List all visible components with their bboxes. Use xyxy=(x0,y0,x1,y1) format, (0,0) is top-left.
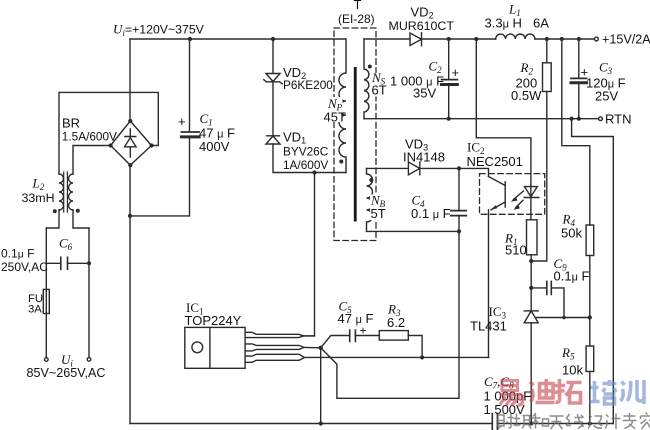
node: VD3/C4 node A xyxy=(457,166,461,170)
wire: TL431 ref line xyxy=(536,317,590,319)
node: bridge-minus / C1-return junction xyxy=(128,214,132,218)
wire: drain pin to drain vertical xyxy=(304,335,315,337)
capacitor C9 plates xyxy=(547,281,552,294)
she xyxy=(498,414,514,430)
node: source at bottom rail xyxy=(319,421,323,425)
pin xyxy=(514,414,532,429)
wire: secondary top rail to +15V xyxy=(364,38,594,40)
svg-text:1.5A/600V: 1.5A/600V xyxy=(62,130,117,144)
svg-text:+: + xyxy=(360,324,367,338)
node: bridge left vertex xyxy=(109,143,113,147)
choke L2 right winding xyxy=(69,174,73,210)
node: ref divider junction xyxy=(588,315,592,319)
label: NS 6T xyxy=(371,70,387,98)
opto phototransistor xyxy=(489,177,506,210)
svg-text:RTN: RTN xyxy=(605,112,631,127)
capacitor C1 lead bottom xyxy=(189,138,191,216)
wire: bridge minus down to primary ground rail xyxy=(129,165,131,423)
wire: R5 to RTN bottom rail xyxy=(589,372,591,424)
terminal: RTN xyxy=(599,117,603,121)
ji xyxy=(605,414,621,430)
node: NS phase dot xyxy=(368,65,372,69)
node: rail-clamp junction xyxy=(271,37,275,41)
label: C4 0.1uF xyxy=(411,193,451,222)
svg-text:+: + xyxy=(452,65,460,80)
resistor R1 box xyxy=(527,220,538,255)
node: L2 right phase dot xyxy=(76,209,80,213)
node: rail-R2 junction xyxy=(545,37,549,41)
char Yi xyxy=(500,381,523,406)
IC1 source pin xyxy=(245,344,304,351)
label: VD2 MUR610CT xyxy=(389,5,455,34)
diode inside bridge xyxy=(125,129,137,157)
label: BR 1.5A/600V xyxy=(62,116,117,144)
capacitor C5 plates xyxy=(350,330,356,341)
svg-text:33mH: 33mH xyxy=(22,191,55,205)
svg-text:+: + xyxy=(178,114,186,129)
wire: drain vertical to TOP224 pin xyxy=(304,173,315,336)
svg-text:510: 510 xyxy=(505,243,527,258)
node: RTN step junction xyxy=(570,117,574,121)
label: RTN xyxy=(605,112,631,127)
label: C7 C8 1000pF 1500V xyxy=(484,374,532,417)
opto LED xyxy=(524,185,539,220)
svg-text:3A: 3A xyxy=(28,304,42,316)
svg-text:85V~265V,AC: 85V~265V,AC xyxy=(27,366,106,380)
transformer core xyxy=(354,67,357,222)
label: IC1 TOP224Y xyxy=(185,300,242,328)
wire: left AC step up to choke xyxy=(46,210,59,228)
svg-text:25V: 25V xyxy=(595,89,618,104)
svg-text:+: + xyxy=(581,65,589,80)
label: + C1 xyxy=(178,114,186,129)
svg-text:1A/600V: 1A/600V xyxy=(283,158,328,172)
svg-text:BYV26C: BYV26C xyxy=(283,145,329,159)
wire: clamp bottom to drain node and NP bottom xyxy=(273,144,346,173)
opto light arrows xyxy=(511,191,524,210)
node: rail-C3 junction xyxy=(577,37,581,41)
IC1 TOP224Y package body xyxy=(185,327,245,368)
node: C9 to ref junction xyxy=(562,316,566,320)
label: C9 0.1uF xyxy=(554,256,590,284)
wire: C1 bottom return xyxy=(129,215,190,217)
node: NB return / C4 junction xyxy=(457,229,461,233)
label: L1 3.3uH 6A xyxy=(485,2,550,31)
svg-text:T: T xyxy=(354,0,362,12)
TVS VD2 P6KE200 xyxy=(264,74,282,84)
wire: LED feed from +15V rail xyxy=(476,39,531,187)
svg-text:IN4148: IN4148 xyxy=(403,150,445,165)
capacitor C2 plates xyxy=(442,80,458,85)
tian xyxy=(550,416,564,429)
svg-text:TOP224Y: TOP224Y xyxy=(185,313,242,328)
zhuan xyxy=(623,413,637,429)
wire: NB bottom return xyxy=(367,230,460,232)
char Tuo xyxy=(555,379,582,403)
svg-text:0.1μ F: 0.1μ F xyxy=(1,247,34,261)
label: VD1 BYV26C 1A/600V xyxy=(283,130,329,173)
he xyxy=(532,413,549,429)
node: rail-R4feed junction xyxy=(560,37,564,41)
svg-text:35V: 35V xyxy=(413,86,436,101)
wire: TL431 anode to RTN bottom rail xyxy=(530,323,532,424)
svg-text:(EI-28): (EI-28) xyxy=(338,12,375,26)
inductor L1 xyxy=(496,34,535,39)
capacitor C6 leads xyxy=(46,262,89,264)
wire: C5 to R3 xyxy=(355,335,379,337)
label: Ui 85V~265V,AC xyxy=(27,352,106,380)
svg-text:MUR610CT: MUR610CT xyxy=(389,19,455,33)
wire: primary bottom ground rail xyxy=(130,423,492,425)
input AC right line xyxy=(88,228,90,357)
capacitor C4 plates xyxy=(451,211,467,216)
label: C1 47uF 400V xyxy=(199,111,235,154)
label: IC2 NEC2501 xyxy=(467,140,523,170)
node: R3 drop on control line xyxy=(420,355,424,359)
label: L2 33mH xyxy=(22,176,55,206)
label: C2 1000uF 35V xyxy=(390,59,444,101)
wire: left choke top over bridge to right vertex xyxy=(59,92,158,174)
primary winding NP xyxy=(339,39,346,173)
label: + C3 xyxy=(581,65,589,80)
wire: between VD2 and VD1 xyxy=(272,82,274,137)
capacitor C1 lead top xyxy=(189,39,191,132)
wire: control line xyxy=(305,356,488,358)
node: R2-join junction xyxy=(529,259,533,263)
svg-text:6T: 6T xyxy=(372,83,387,98)
wire: clamp branch from rail xyxy=(272,39,274,74)
label: R2 200 0.5W xyxy=(511,60,542,103)
svg-text:50k: 50k xyxy=(561,226,582,241)
label: C6 xyxy=(59,236,73,253)
capacitor C2 leads xyxy=(448,39,450,119)
wire: R4 to ref node xyxy=(589,256,591,347)
xian xyxy=(566,414,584,429)
node: RTN-C3 junction xyxy=(577,117,581,121)
svg-text:10k: 10k xyxy=(562,363,583,378)
label: + C2 xyxy=(452,65,460,80)
capacitor C4 lead bottom xyxy=(458,216,460,232)
terminal: AC left xyxy=(45,358,49,362)
svg-text:250V,AC: 250V,AC xyxy=(1,260,48,274)
wire: primary top rail +HV xyxy=(130,38,346,40)
label: Ui=+120V~375V xyxy=(113,22,205,39)
wire: RTN rail xyxy=(364,118,598,120)
IC1 control pin xyxy=(245,354,304,362)
label: R1 510 xyxy=(504,231,527,258)
watermark blue characters xyxy=(590,380,645,404)
label: NB 5T xyxy=(370,193,386,222)
bias winding NB xyxy=(367,168,373,231)
terminal: +15V/2A xyxy=(595,37,599,41)
node: L2 left phase dot xyxy=(53,209,57,213)
resistor R2 box xyxy=(543,63,552,92)
resistor R3 box xyxy=(379,331,408,341)
svg-text:P6KE200: P6KE200 xyxy=(283,78,333,92)
capacitor C6 plates xyxy=(61,257,68,269)
node: bridge right vertex xyxy=(149,143,153,147)
capacitor C4 lead top xyxy=(458,168,460,210)
label: + C5 xyxy=(360,324,367,338)
svg-text:0.1 μ F: 0.1 μ F xyxy=(411,206,451,221)
node: NP phase dot xyxy=(339,160,343,164)
svg-text:6.2: 6.2 xyxy=(387,315,405,330)
capacitor C3 leads xyxy=(578,39,580,119)
label: NP 45T xyxy=(323,96,346,125)
capacitor C3 plates xyxy=(571,78,587,82)
svg-text:+15V/2A: +15V/2A xyxy=(602,33,650,47)
node: rail-C1 junction xyxy=(188,37,192,41)
TL431 IC3 xyxy=(524,311,538,323)
input AC left line with fuse FU xyxy=(45,228,47,358)
svg-text:45T: 45T xyxy=(324,110,346,125)
watermark logo line 1 red characters xyxy=(500,379,582,406)
svg-text:3.3μ H: 3.3μ H xyxy=(485,16,522,31)
wire: R3 to control line xyxy=(408,336,422,358)
node: bridge top vertex xyxy=(128,119,132,123)
label: R5 10k xyxy=(561,345,583,378)
diode VD2 MUR610CT xyxy=(410,33,422,46)
choke L2 left winding xyxy=(59,174,64,210)
wire: RTN-side bottom rail xyxy=(497,423,613,425)
bridge rectifier BR diamond xyxy=(111,121,152,165)
svg-text:TL431: TL431 xyxy=(470,319,507,334)
wire: source junction to C5 xyxy=(321,336,350,348)
node: drain junction on clamp return xyxy=(312,170,316,174)
resistor R4 box xyxy=(586,225,594,256)
svg-text:0.5W: 0.5W xyxy=(511,88,542,103)
svg-text:NEC2501: NEC2501 xyxy=(467,154,523,169)
svg-text:6A: 6A xyxy=(533,16,549,31)
transformer T dashed box xyxy=(334,28,376,241)
wire: left HV drop to bridge + output xyxy=(129,39,131,121)
node: rail-C2 junction xyxy=(447,37,451,41)
label: T (EI-28) xyxy=(338,0,375,26)
label: IC3 TL431 xyxy=(470,304,507,334)
node: C6 right junction xyxy=(87,261,91,265)
label: +15V/2A xyxy=(602,33,650,47)
capacitor C7 C8 plates xyxy=(492,414,497,430)
she2 xyxy=(588,415,603,429)
node: R5 at bottom rail xyxy=(588,421,592,425)
wire: NB return down to source loop xyxy=(321,231,459,398)
wire: right choke top to bridge left vertex xyxy=(73,146,111,175)
svg-text:47 μ F: 47 μ F xyxy=(338,311,374,326)
label: R3 6.2 xyxy=(387,302,405,331)
capacitor C1 plates xyxy=(181,132,199,137)
fuse FU box xyxy=(43,289,49,313)
wire: right AC step up to choke xyxy=(73,210,89,228)
node: RTN-C2 junction xyxy=(447,117,451,121)
diode VD3 IN4148 xyxy=(408,162,419,175)
resistor R2 line xyxy=(531,39,547,261)
node: bridge bottom vertex xyxy=(128,163,132,167)
watermark gray tagline line 2 xyxy=(498,413,650,430)
label: 0.1uF 250V,AC xyxy=(1,247,48,275)
terminal: AC right xyxy=(87,358,91,362)
svg-text:0.1μ F: 0.1μ F xyxy=(554,269,590,284)
svg-text:5T: 5T xyxy=(371,206,386,221)
resistor R5 box xyxy=(586,346,594,372)
node: NB phase dot xyxy=(369,178,373,182)
label: C5 47uF xyxy=(338,299,374,327)
wire: R1 to TL431 cathode xyxy=(530,255,532,311)
node: TL431 anode at bottom rail xyxy=(529,421,533,425)
choke L2 core lines xyxy=(64,172,68,212)
wire: NB top to VD3 xyxy=(367,167,409,169)
node: source junction xyxy=(319,346,323,350)
wire: RTN step to right edge xyxy=(572,119,614,424)
wire: source pin to junction xyxy=(304,346,321,348)
jia xyxy=(641,413,650,430)
label: VD3 IN4148 xyxy=(403,137,445,165)
label: VD2 P6KE200 xyxy=(283,65,333,92)
wire: source junction to bottom rail xyxy=(320,348,322,424)
diode VD1 BYV26C xyxy=(266,136,280,144)
IC1 drain pin xyxy=(245,332,304,337)
optocoupler IC2 dashed box xyxy=(480,174,545,215)
svg-text:Ui=+120V~375V: Ui=+120V~375V xyxy=(113,22,205,39)
node: rail-LED-feed junction xyxy=(474,37,478,41)
label: R4 50k xyxy=(561,212,582,241)
wire: VD3 to node A and opto collector xyxy=(420,168,489,176)
secondary winding NS xyxy=(364,39,369,119)
char Di xyxy=(530,379,555,403)
label: FU 3A xyxy=(28,293,43,316)
node: C9 tap junction xyxy=(529,286,533,290)
wire: R4 feed from +15V rail xyxy=(562,39,590,225)
wire: opto emitter down to control line xyxy=(488,210,490,358)
svg-text:BR: BR xyxy=(62,116,80,131)
label: C3 120uF 25V xyxy=(586,60,626,104)
capacitor C9 leads xyxy=(531,288,564,318)
svg-text:400V: 400V xyxy=(199,139,230,154)
